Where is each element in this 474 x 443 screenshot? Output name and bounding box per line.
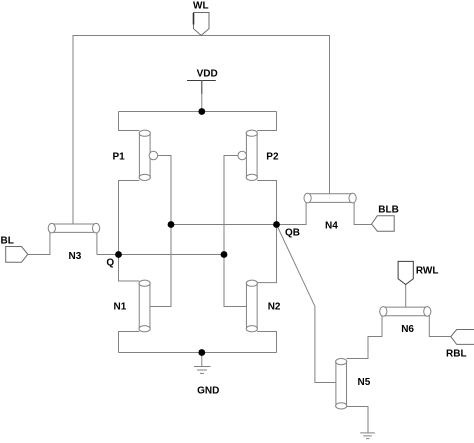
port BL pentagon (6, 247, 28, 263)
svg-text:VDD: VDD (197, 68, 218, 79)
port RBL pentagon (451, 330, 474, 345)
wire N6 left terminal to N5 drain (347, 314, 383, 359)
power VDD symbol (187, 81, 216, 112)
wire P2 drain to QB (257, 181, 276, 225)
wire QB to N5 gate (diagonal) (277, 225, 337, 383)
svg-text:QB: QB (285, 228, 300, 239)
junction dot VDD (198, 108, 205, 115)
node QB dot (273, 221, 280, 228)
svg-text:RBL: RBL (446, 349, 467, 360)
transistor N1 (139, 280, 150, 332)
svg-text:P1: P1 (113, 152, 126, 163)
wire P1 drain to Q (119, 181, 140, 255)
wire N4 right terminal to BLB (354, 201, 372, 225)
wire RWL to N6 gate (405, 285, 407, 308)
wire P1/N1 gate line (150, 156, 171, 307)
wire ground rail (119, 352, 277, 354)
transistor N2 (246, 280, 257, 332)
wire N6 right terminal to RBL (429, 314, 451, 337)
svg-text:RWL: RWL (416, 266, 439, 277)
transistor P2 (238, 130, 257, 180)
svg-text:N5: N5 (358, 377, 371, 388)
wire QB rail (171, 224, 277, 226)
port RWL pentagon (398, 261, 413, 284)
svg-text:GND: GND (197, 385, 219, 396)
wire VDD to P1 source (119, 112, 140, 131)
svg-text:Q: Q (106, 258, 114, 269)
svg-text:BLB: BLB (378, 204, 399, 215)
ground GND symbol (194, 353, 211, 374)
svg-text:N1: N1 (114, 302, 127, 313)
transistor N4 (304, 193, 356, 203)
svg-text:BL: BL (1, 236, 14, 247)
junction dot GND (198, 349, 205, 356)
ground read-port symbol (360, 433, 375, 439)
svg-text:P2: P2 (266, 152, 279, 163)
wire Q rail (97, 254, 224, 256)
transistor P1 (139, 130, 158, 180)
wire WL net (N3 gate, top rail, N4 gate) (73, 36, 330, 225)
transistor N3 (48, 223, 99, 233)
svg-text:N4: N4 (325, 221, 338, 232)
svg-text:N6: N6 (401, 324, 414, 335)
wire VDD to P2 source (257, 112, 276, 131)
junction dot gate line right (221, 251, 228, 258)
transistor N5 (336, 359, 347, 410)
wire N1 source (119, 332, 140, 353)
svg-text:WL: WL (193, 1, 209, 12)
wire QB to N2 drain (257, 225, 276, 283)
wire N5 source to read ground (347, 407, 369, 433)
transistor N6 (380, 307, 431, 317)
node Q dot (115, 251, 122, 258)
wire N3 right terminal (96, 231, 98, 255)
wire VDD rail (119, 111, 277, 113)
svg-text:N3: N3 (69, 251, 82, 262)
port BLB pentagon (372, 216, 395, 231)
wire Q to N1 drain (119, 255, 140, 282)
port WL pentagon (194, 13, 210, 36)
wire N4 left terminal to QB (277, 201, 307, 225)
wire N3 left terminal to BL (28, 231, 50, 255)
junction dot gate line left (168, 221, 175, 228)
wire N2 source (257, 332, 276, 353)
svg-text:N2: N2 (268, 302, 281, 313)
wire P2/N2 gate line (224, 156, 246, 307)
